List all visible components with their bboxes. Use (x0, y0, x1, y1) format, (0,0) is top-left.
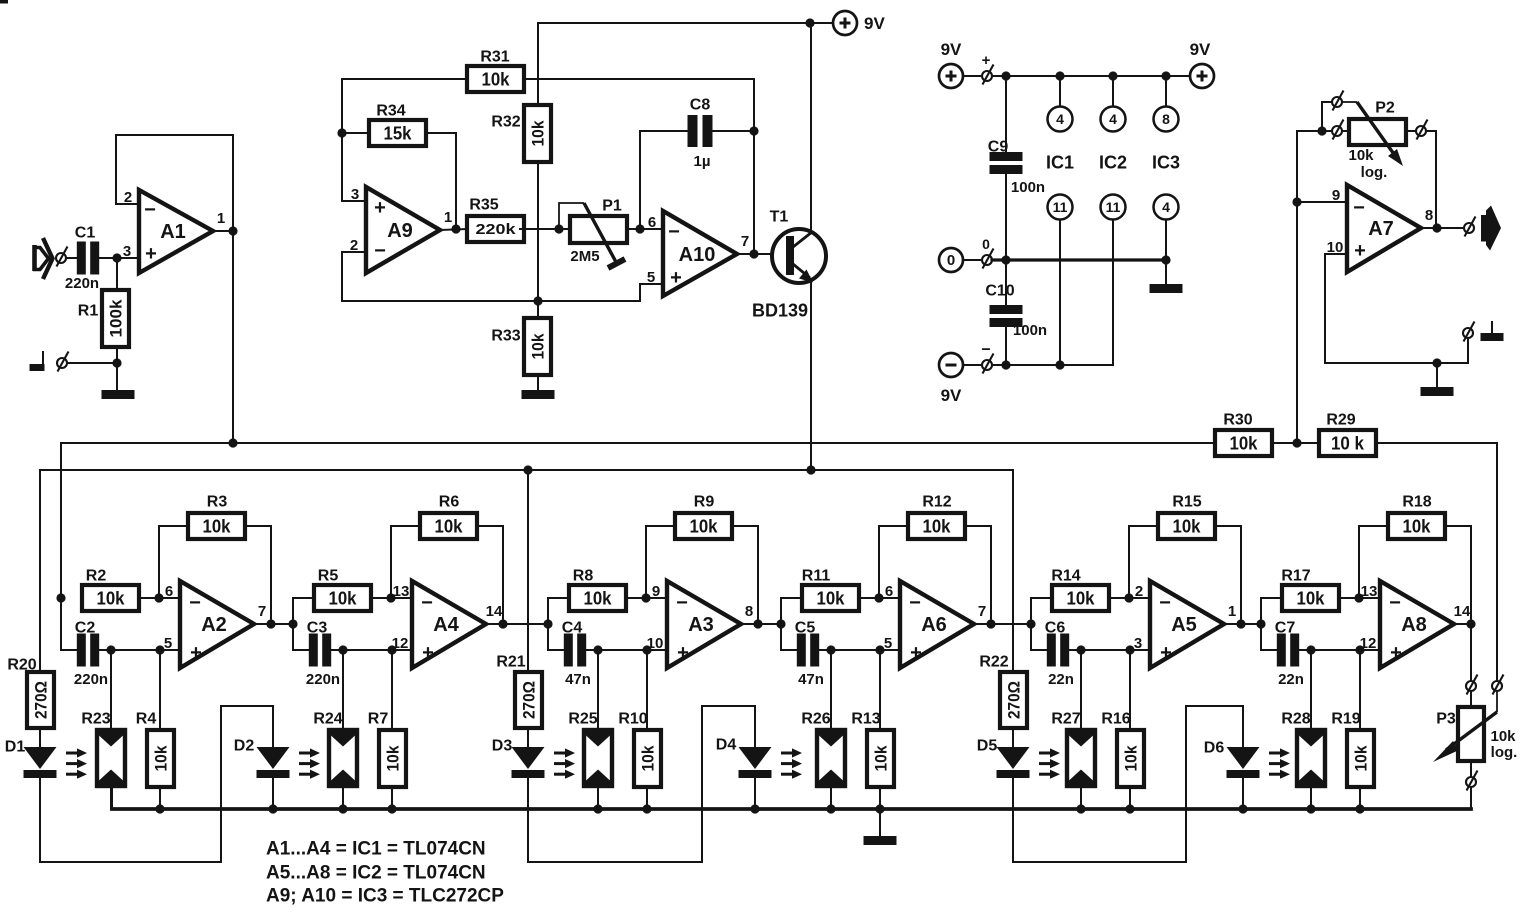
svg-text:2M5: 2M5 (570, 248, 599, 265)
svg-text:R17: R17 (1281, 568, 1310, 585)
P2 right terminal (1416, 120, 1428, 140)
wire R32 to +9V rail (537, 23, 539, 105)
resistor R19 (1331, 711, 1374, 787)
svg-text:0: 0 (982, 236, 990, 252)
light arrows D5 (1039, 748, 1060, 778)
svg-text:13: 13 (1361, 583, 1378, 600)
wire R16 bottom (1129, 787, 1131, 809)
svg-text:+: + (670, 267, 682, 289)
junction IC3 supply node (1161, 71, 1170, 80)
svg-text:10k: 10k (329, 588, 358, 608)
svg-text:R23: R23 (81, 711, 110, 728)
svg-text:A3: A3 (688, 614, 714, 636)
wire R5 to inverting input (370, 597, 412, 599)
svg-text:10k: 10k (528, 333, 547, 359)
wire input up branch A5 (1031, 598, 1052, 624)
output terminal (1464, 217, 1476, 237)
ground below R1 (102, 390, 135, 399)
junction A6 output node (986, 619, 995, 628)
resistor R35 (467, 197, 524, 242)
svg-text:4: 4 (1162, 199, 1170, 215)
wire R33 bottom (537, 375, 539, 390)
svg-text:8: 8 (1162, 111, 1170, 127)
wire 0V rail (992, 258, 1166, 261)
junction D2 on bus (268, 804, 277, 813)
svg-text:C9: C9 (988, 139, 1009, 156)
svg-text:+: + (374, 197, 386, 219)
wire A6 output to next stage (991, 623, 1031, 625)
resistor R33 (491, 318, 551, 375)
resistor R18 (1388, 494, 1445, 539)
wire R28 top (1310, 650, 1312, 730)
svg-text:P1: P1 (602, 198, 622, 215)
svg-text:R35: R35 (469, 197, 498, 214)
resistor R22 (979, 654, 1027, 728)
junction R23 top node (106, 645, 115, 654)
wire C7 to noninverting input (1299, 649, 1380, 651)
wire P1 to A10 pin 6 (627, 228, 663, 230)
IC3 pin 8 (1154, 107, 1179, 132)
wire IC1 pin11 column (1059, 220, 1061, 365)
junction C10 bottom node (1001, 360, 1010, 369)
resistor R32 (491, 105, 551, 162)
wire ground node to terminal (68, 362, 112, 364)
junction R26 top node (826, 645, 835, 654)
wire feedback column T1 base (753, 79, 755, 254)
potentiometer P1 (559, 198, 627, 268)
svg-text:R2: R2 (86, 568, 107, 585)
svg-text:3: 3 (351, 186, 359, 203)
connector -9V (982, 354, 994, 374)
wire input down branch A8 (1261, 624, 1276, 650)
junction R27 on bus (1076, 804, 1085, 813)
wire A9 pin2 (342, 252, 663, 301)
junction R28 top node (1306, 645, 1315, 654)
svg-text:R7: R7 (368, 711, 389, 728)
capacitor C4 (562, 620, 591, 689)
junction R3 left node (154, 593, 163, 602)
svg-text:R18: R18 (1402, 494, 1431, 511)
svg-text:log.: log. (1491, 744, 1518, 761)
wire D2 to bus (272, 778, 274, 809)
wire IC1 pin4 stub (1059, 76, 1061, 106)
resistor R15 (1158, 494, 1215, 539)
svg-text:10k: 10k (923, 516, 952, 536)
wire bus ground stub (879, 809, 881, 836)
svg-text:R15: R15 (1172, 494, 1201, 511)
svg-text:P2: P2 (1375, 100, 1395, 117)
+9V battery terminal right (1190, 64, 1214, 88)
wire R11 to inverting input (858, 597, 900, 599)
svg-text:10k: 10k (435, 516, 464, 536)
wire R6 right (477, 526, 503, 624)
op-amp A5 (1134, 581, 1236, 668)
svg-text:10: 10 (647, 635, 664, 652)
wire P2 to A7 output node (1426, 131, 1436, 228)
svg-text:R27: R27 (1051, 711, 1080, 728)
svg-text:10k: 10k (97, 588, 126, 608)
wire A1 output (213, 230, 233, 232)
ground below R33 (522, 390, 555, 399)
wire D5 to D6 (1013, 706, 1243, 862)
wire A7 output (1421, 227, 1464, 229)
svg-text:10k: 10k (639, 745, 658, 771)
wire C6 to noninverting input (1069, 649, 1150, 651)
wire R24 bottom (342, 786, 344, 809)
svg-text:IC1: IC1 (1046, 152, 1074, 172)
light arrows D2 (299, 748, 320, 778)
wire A10 output to T1 base (737, 253, 786, 255)
wire input down branch A5 (1031, 624, 1046, 650)
svg-text:−: − (1389, 592, 1401, 614)
svg-text:C5: C5 (795, 620, 816, 637)
resistor R21 (496, 654, 542, 728)
svg-text:10k: 10k (1067, 588, 1096, 608)
svg-text:1: 1 (1228, 603, 1236, 620)
wire A1 pin 2 feedback (116, 203, 139, 205)
svg-text:10k: 10k (1348, 147, 1374, 164)
wire R8 to inverting input (625, 597, 667, 599)
wire R25 top (597, 650, 599, 730)
junction R16 top node (1125, 645, 1134, 654)
svg-text:10k: 10k (1297, 588, 1326, 608)
junction A3 output node (753, 619, 762, 628)
-9V battery terminal (939, 353, 963, 377)
wire C5 to noninverting input (819, 649, 900, 651)
junction C8 right node (749, 126, 758, 135)
capacitor C5 (795, 620, 824, 689)
wire input down branch A3 (548, 624, 563, 650)
wire R32 bottom column (537, 162, 539, 301)
junction summing node (1292, 438, 1301, 447)
svg-text:10k: 10k (1173, 516, 1202, 536)
op-amp A1 (123, 189, 225, 273)
capacitor C6 (1045, 620, 1074, 689)
resistor R13 (851, 711, 894, 787)
svg-text:10k: 10k (584, 588, 613, 608)
wire A3 output (741, 623, 758, 625)
junction R4 top node (155, 645, 164, 654)
svg-text:R3: R3 (207, 494, 228, 511)
svg-text:+: + (1390, 642, 1402, 664)
wire R14 to inverting input (1108, 597, 1150, 599)
svg-text:R20: R20 (7, 657, 36, 674)
svg-text:C3: C3 (307, 620, 328, 637)
wire signal rail (61, 442, 1215, 444)
junction stage input node A6 (776, 619, 785, 628)
junction stage input node A8 (1256, 619, 1265, 628)
resistor R4 (136, 711, 174, 787)
wire P2 right (1406, 130, 1416, 132)
wire C8 right (710, 130, 754, 132)
junction R27 top node (1076, 645, 1085, 654)
wire P3 top (1470, 691, 1472, 707)
wire C9 top (1005, 76, 1007, 153)
wire input down branch A4 (293, 624, 308, 650)
junction IC1 supply node (1055, 71, 1064, 80)
svg-text:A9; A10 = IC3 = TLC272CP: A9; A10 = IC3 = TLC272CP (266, 886, 504, 907)
junction IC2 supply node (1108, 71, 1117, 80)
svg-text:C1: C1 (75, 225, 96, 242)
svg-text:7: 7 (258, 603, 266, 620)
svg-text:R16: R16 (1101, 711, 1130, 728)
ground tap at input (30, 364, 45, 371)
wire -9V rail (992, 364, 1113, 366)
resistor R3 (188, 494, 245, 539)
svg-text:10k: 10k (1490, 728, 1516, 745)
junction P1 left node (554, 224, 563, 233)
svg-text:14: 14 (1454, 603, 1471, 620)
svg-text:+: + (422, 642, 434, 664)
ground on bus (864, 836, 897, 845)
LED D1 (5, 739, 57, 778)
svg-text:R30: R30 (1223, 412, 1252, 429)
svg-text:10k: 10k (1230, 433, 1259, 453)
svg-text:D5: D5 (977, 738, 998, 755)
junction R28 on bus (1306, 804, 1315, 813)
svg-text:R21: R21 (496, 654, 525, 671)
svg-text:R29: R29 (1326, 412, 1355, 429)
photoresistor R26 (801, 711, 845, 786)
svg-text:log.: log. (1361, 164, 1388, 181)
svg-text:+: + (1160, 642, 1172, 664)
wire R10 bottom (646, 787, 648, 809)
wire R33 top (537, 301, 539, 318)
wire node to R1 (116, 258, 118, 290)
wire P3 bottom (1470, 761, 1472, 777)
svg-text:220n: 220n (65, 275, 99, 292)
wire R18 right (1445, 526, 1471, 624)
junction R33 top node (533, 296, 542, 305)
svg-text:+: + (677, 642, 689, 664)
potentiometer P2 (1342, 100, 1406, 182)
junction C9 top node (1001, 71, 1010, 80)
capacitor C3 (306, 620, 340, 689)
junction A9 output node (451, 224, 460, 233)
svg-text:R9: R9 (694, 494, 715, 511)
svg-text:R1: R1 (78, 303, 99, 320)
wire P2 terminal to body (1342, 130, 1349, 132)
wire D3 to D4 (528, 706, 755, 862)
svg-text:15k: 15k (384, 123, 413, 143)
wire R31 right (524, 78, 754, 80)
svg-text:R14: R14 (1051, 568, 1080, 585)
svg-text:6: 6 (165, 583, 173, 600)
junction R24 top node (338, 645, 347, 654)
op-amp A8 (1360, 581, 1471, 668)
capacitor C1 (65, 225, 99, 293)
svg-text:−: − (374, 240, 386, 262)
resistor R2 (82, 568, 139, 611)
junction A4 output node (498, 619, 507, 628)
junction R25 top node (593, 645, 602, 654)
junction R13 top node (875, 645, 884, 654)
svg-text:10k: 10k (690, 516, 719, 536)
svg-text:270Ω: 270Ω (520, 681, 539, 719)
wire output ground tap (1467, 338, 1469, 363)
IC2 pin 4 (1101, 107, 1126, 132)
wire input up branch A3 (548, 598, 569, 624)
svg-text:A6: A6 (921, 614, 947, 636)
light arrows D6 (1269, 748, 1290, 778)
svg-text:10k: 10k (1122, 745, 1141, 771)
wire A7 pin 9 (1297, 201, 1347, 203)
wire R3 right (245, 526, 271, 624)
photoresistor R23 (81, 711, 125, 786)
photoresistor R28 (1281, 711, 1325, 786)
resistor R10 (618, 711, 661, 787)
wire to A7 ground (1436, 363, 1438, 387)
transistor T1 (752, 209, 826, 321)
svg-text:12: 12 (1360, 635, 1377, 652)
wire R13 top (879, 650, 881, 730)
wire R4 bottom (159, 787, 161, 809)
wire P2 wiper link (1322, 102, 1332, 131)
junction R19 top node (1355, 645, 1364, 654)
svg-text:5: 5 (164, 635, 172, 652)
junction R2 left node (56, 593, 65, 602)
svg-text:10k: 10k (384, 745, 403, 771)
resistor R11 (802, 568, 859, 611)
junction A7 output node (1432, 223, 1441, 232)
svg-text:22n: 22n (1048, 671, 1074, 688)
svg-text:R5: R5 (318, 568, 339, 585)
svg-text:R6: R6 (439, 494, 460, 511)
connector 0V (982, 249, 994, 269)
resistor R1 (78, 290, 129, 347)
svg-text:A10: A10 (679, 244, 716, 266)
wire C2 to noninverting input (99, 649, 180, 651)
op-amp A10 (647, 211, 749, 296)
ground below A7 (1421, 387, 1454, 396)
resistor R8 (569, 568, 626, 611)
svg-text:3: 3 (123, 243, 131, 260)
svg-text:47n: 47n (565, 671, 591, 688)
junction R25 on bus (593, 804, 602, 813)
wire A4 output (486, 623, 503, 625)
junction R7 top node (387, 645, 396, 654)
wire input up branch A4 (293, 598, 314, 624)
junction R18 left node (1354, 593, 1363, 602)
junction D4 on bus (750, 804, 759, 813)
LED D6 (1204, 740, 1260, 778)
resistor R5 (314, 568, 371, 611)
resistor R6 (420, 494, 477, 539)
wire A8 output (1454, 623, 1471, 625)
svg-text:100k: 100k (106, 299, 125, 338)
svg-text:D1: D1 (5, 739, 26, 756)
capacitor C10 (985, 283, 1047, 340)
wire R26 bottom (830, 786, 832, 809)
svg-text:270Ω: 270Ω (1005, 681, 1024, 719)
svg-text:11: 11 (1106, 199, 1121, 215)
svg-text:1µ: 1µ (694, 153, 711, 170)
wire T1 collector (810, 23, 812, 233)
wire input terminal to C1 (66, 257, 80, 259)
wire 0V terminal to connector (964, 259, 982, 261)
svg-text:R26: R26 (801, 711, 830, 728)
wire R26 top (830, 650, 832, 730)
wire R31 left (342, 78, 467, 80)
svg-text:9V: 9V (941, 386, 962, 405)
wire IC2 pin4 stub (1112, 76, 1114, 106)
wire +9V top rail (538, 22, 810, 24)
P2 left terminal (1332, 120, 1344, 140)
svg-text:−: − (676, 592, 688, 614)
svg-text:1: 1 (444, 209, 452, 226)
svg-text:C4: C4 (562, 620, 583, 637)
svg-text:10k: 10k (152, 745, 171, 771)
svg-text:IC2: IC2 (1099, 152, 1127, 172)
svg-text:R28: R28 (1281, 711, 1310, 728)
wire A8 output to P3 (1470, 624, 1472, 681)
output connector symbol (1481, 206, 1501, 251)
wire R15 right (1215, 526, 1241, 624)
resistor R7 (368, 711, 406, 787)
svg-text:14: 14 (486, 603, 503, 620)
junction R6 left node (386, 593, 395, 602)
resistor R14 (1051, 568, 1109, 611)
op-amp A9 (350, 186, 452, 273)
svg-text:R4: R4 (136, 711, 157, 728)
junction R16 on bus (1125, 804, 1134, 813)
wire C4 to noninverting input (586, 649, 667, 651)
svg-text:47n: 47n (798, 671, 824, 688)
IC3 pin 4 (1154, 195, 1179, 220)
svg-text:6: 6 (885, 583, 893, 600)
junction R10 on bus (642, 804, 651, 813)
resistor R20 (7, 657, 54, 728)
svg-text:2: 2 (1135, 583, 1143, 600)
P3 wiper terminal (1492, 675, 1504, 695)
LED D2 (234, 738, 290, 778)
svg-text:4: 4 (1056, 111, 1064, 127)
photoresistor R27 (1051, 711, 1095, 786)
svg-text:A7: A7 (1368, 218, 1394, 240)
svg-text:270Ω: 270Ω (32, 681, 51, 719)
junction R21 tap (523, 465, 532, 474)
wire D4 to bus (754, 778, 756, 809)
svg-text:3: 3 (1134, 635, 1142, 652)
svg-text:BD139: BD139 (752, 300, 808, 320)
svg-text:−: − (1353, 197, 1365, 219)
svg-text:+: + (190, 642, 202, 664)
connector +9V (982, 65, 994, 85)
junction R12 left node (874, 593, 883, 602)
wire R27 bottom (1080, 786, 1082, 809)
ground reference terminal (57, 352, 69, 372)
svg-text:P3: P3 (1436, 711, 1456, 728)
wire D1 to D2 (40, 706, 273, 862)
wire +9V distribution rail (992, 75, 1189, 77)
wire A9 output (440, 229, 467, 230)
svg-text:6: 6 (648, 214, 656, 231)
junction R10 top node (642, 645, 651, 654)
wire R20 to D1 (39, 728, 41, 747)
wire R12 right (965, 526, 991, 624)
capacitor C2 (74, 620, 108, 689)
light arrows D4 (781, 748, 802, 778)
svg-text:A9: A9 (387, 220, 413, 242)
junction A8 output node (1466, 619, 1475, 628)
svg-text:R24: R24 (313, 711, 342, 728)
wire to +9V terminal (810, 22, 832, 24)
svg-text:10k: 10k (872, 745, 891, 771)
wire R35 to P1 (520, 228, 570, 230)
svg-text:C6: C6 (1045, 620, 1066, 637)
LED D4 (716, 737, 772, 778)
wire ground bus (112, 807, 1471, 811)
